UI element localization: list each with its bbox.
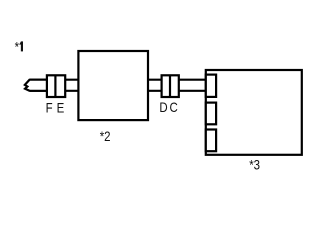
terminal labels F E: [46, 99, 65, 115]
male terminal T1 (arrow plug): [25, 80, 47, 91]
svg-text:E: E: [57, 99, 65, 115]
wire W4: connector DC to component *3 terminal 1: [179, 80, 207, 91]
terminal tab 3 of *3: [206, 130, 216, 152]
svg-text:C: C: [170, 99, 178, 115]
label *3: [249, 156, 260, 172]
label *1: [15, 38, 23, 54]
component *3 (box): [206, 70, 302, 155]
svg-text:*2: *2: [100, 128, 111, 144]
terminal labels D C: [159, 99, 177, 115]
svg-text:D: D: [159, 99, 167, 115]
terminal tab 1 of *3: [206, 75, 216, 97]
component *2 (box): [78, 51, 148, 120]
label *2: [100, 128, 111, 144]
svg-text:*: *: [15, 38, 19, 54]
wire W1: male terminal to connector FE: [30, 80, 47, 91]
svg-text:*3: *3: [249, 156, 260, 172]
wire W2: connector FE to component *2: [65, 80, 79, 91]
wire W3: component *2 to connector DC: [147, 80, 162, 91]
connector DC (inline 2-cavity connector): [162, 75, 179, 97]
svg-text:F: F: [46, 99, 53, 115]
connector FE (inline 2-cavity connector): [47, 75, 65, 97]
terminal tab 2 of *3: [206, 103, 216, 125]
